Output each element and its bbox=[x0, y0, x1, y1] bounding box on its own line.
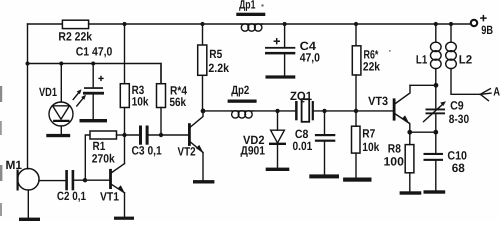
capacitor C9 variable bbox=[424, 85, 470, 132]
node L1 top bbox=[434, 22, 438, 26]
node C1 tap bbox=[91, 62, 95, 66]
speck right of R6 bbox=[389, 50, 391, 52]
wire top rail R2 to Dr1 bbox=[89, 23, 241, 25]
node R5 top bbox=[200, 22, 204, 26]
inductor L2 bbox=[446, 24, 481, 94]
svg-text:ZQ1: ZQ1 bbox=[290, 89, 312, 103]
svg-text:Др1: Др1 bbox=[239, 0, 256, 12]
wire C3 to VT2 base bbox=[149, 134, 189, 136]
wire vertical x124 rail to R3 bbox=[124, 24, 126, 84]
wire left vertical rail bbox=[27, 24, 30, 169]
node R3 bottom bbox=[122, 133, 126, 137]
choke Dr1 bbox=[236, 0, 265, 31]
svg-text:VT1: VT1 bbox=[100, 190, 119, 204]
ground VD2 bbox=[266, 168, 290, 171]
svg-text:R7: R7 bbox=[362, 127, 375, 141]
node R7 top bbox=[354, 109, 358, 113]
node second rail left bbox=[26, 62, 30, 66]
node VD2 tap bbox=[275, 109, 279, 113]
svg-text:R8: R8 bbox=[388, 142, 401, 156]
resistor R1 bbox=[85, 131, 124, 180]
svg-text:C1 47,0: C1 47,0 bbox=[76, 44, 113, 58]
terminal +9V bbox=[471, 16, 493, 37]
wire top rail left segment bbox=[28, 23, 63, 25]
svg-text:0.01: 0.01 bbox=[293, 139, 313, 153]
svg-text:56k: 56k bbox=[170, 95, 187, 109]
svg-text:270k: 270k bbox=[92, 151, 115, 165]
wire collector VT3 to tank bbox=[410, 84, 436, 86]
node VD1 tap bbox=[59, 62, 63, 66]
svg-text:10k: 10k bbox=[132, 94, 149, 108]
wire Dr2 to VD2 node bbox=[253, 110, 295, 112]
svg-text:47,0: 47,0 bbox=[300, 51, 321, 65]
diode VD2 bbox=[241, 111, 285, 168]
node R6 top bbox=[354, 22, 358, 26]
svg-text:R2 22k: R2 22k bbox=[58, 30, 92, 44]
svg-text:VD1: VD1 bbox=[39, 85, 57, 99]
wire ZQ1 to C8 node bbox=[314, 110, 356, 112]
wire node down to VT1 collector bbox=[124, 135, 126, 164]
svg-text:C3 0,1: C3 0,1 bbox=[132, 143, 162, 157]
svg-text:10k: 10k bbox=[362, 140, 379, 154]
resistor R2 bbox=[58, 20, 92, 44]
resistor R3 bbox=[120, 83, 149, 135]
svg-text:68: 68 bbox=[452, 161, 465, 175]
svg-text:Д901: Д901 bbox=[241, 143, 266, 157]
node R4 bottom bbox=[159, 133, 163, 137]
ground VT2 bbox=[193, 180, 214, 183]
capacitor C1 bbox=[76, 44, 113, 119]
microphone M1 bbox=[6, 158, 66, 218]
svg-text:L2: L2 bbox=[459, 53, 473, 67]
svg-text:100: 100 bbox=[384, 155, 405, 169]
capacitor C4 bbox=[265, 24, 320, 75]
ground C1 bbox=[80, 119, 108, 122]
svg-text:Др2: Др2 bbox=[231, 83, 249, 97]
svg-text:8-30: 8-30 bbox=[449, 112, 470, 126]
node C8 tap bbox=[322, 109, 326, 113]
capacitor C2 bbox=[57, 170, 86, 203]
wire signal line to Dr2 bbox=[203, 110, 231, 112]
svg-text:C9: C9 bbox=[450, 98, 464, 112]
ground C4 bbox=[266, 75, 296, 78]
node C9 bottom bbox=[433, 130, 438, 135]
choke Dr2 bbox=[228, 83, 257, 118]
svg-text:C2 0,1: C2 0,1 bbox=[57, 189, 86, 203]
resistor R4 bbox=[157, 64, 188, 136]
ground R8 bbox=[400, 191, 422, 194]
node C4 top bbox=[283, 22, 287, 26]
ground M1 bbox=[19, 218, 40, 221]
capacitor C3 bbox=[132, 126, 162, 158]
resistor R5 bbox=[198, 24, 230, 111]
resistor R6 bbox=[352, 24, 380, 111]
scan smudge left edge 3 bbox=[0, 165, 2, 181]
svg-text:R5: R5 bbox=[209, 47, 222, 61]
ground VD1 bbox=[46, 134, 70, 137]
wire second rail bbox=[28, 64, 162, 84]
svg-text:M1: M1 bbox=[6, 158, 23, 172]
node tank top bbox=[434, 83, 439, 88]
node L2 top bbox=[449, 22, 453, 26]
svg-text:A: A bbox=[493, 84, 500, 98]
crystal ZQ1 bbox=[290, 89, 314, 122]
wire top rail Dr1 to terminal bbox=[262, 23, 470, 25]
scan smudge left edge 2 bbox=[0, 121, 2, 135]
svg-text:L1: L1 bbox=[416, 53, 428, 67]
resistor R7 bbox=[352, 111, 380, 178]
ground R7 bbox=[343, 178, 371, 182]
svg-text:9В: 9В bbox=[481, 23, 493, 37]
svg-text:22k: 22k bbox=[363, 60, 380, 74]
node top rail x124 bbox=[122, 22, 126, 26]
transistor VT2 bbox=[178, 111, 204, 180]
scan smudge left edge 1 bbox=[0, 86, 2, 102]
wire node to C3 bbox=[125, 134, 140, 136]
svg-text:2.2k: 2.2k bbox=[208, 61, 229, 75]
node base VT1 bbox=[83, 178, 87, 182]
capacitor C10 bbox=[424, 132, 468, 190]
transistor VT1 bbox=[100, 164, 125, 217]
antenna A bbox=[480, 84, 500, 100]
wire emitter node to C9 bottom bbox=[410, 131, 436, 133]
inductor L1 bbox=[416, 24, 441, 85]
speck near Dr1 bbox=[262, 5, 264, 7]
node emitter VT3 bbox=[407, 130, 412, 135]
svg-text:VT3: VT3 bbox=[368, 94, 388, 108]
capacitor C8 bbox=[293, 111, 336, 174]
wire C8 node to VT3 base bbox=[356, 110, 393, 112]
node collector VT2 bbox=[201, 109, 206, 114]
ground C10 bbox=[424, 190, 446, 193]
svg-text:VT2: VT2 bbox=[178, 145, 196, 159]
photodiode VD1 bbox=[39, 64, 86, 134]
ground C8 bbox=[309, 174, 339, 178]
ground VT1 bbox=[114, 217, 134, 220]
transistor VT3 bbox=[368, 85, 410, 132]
resistor R8 bbox=[384, 132, 414, 191]
wire C2 to VT1 base bbox=[74, 179, 109, 181]
scan smudge left edge 4 bbox=[0, 203, 2, 216]
